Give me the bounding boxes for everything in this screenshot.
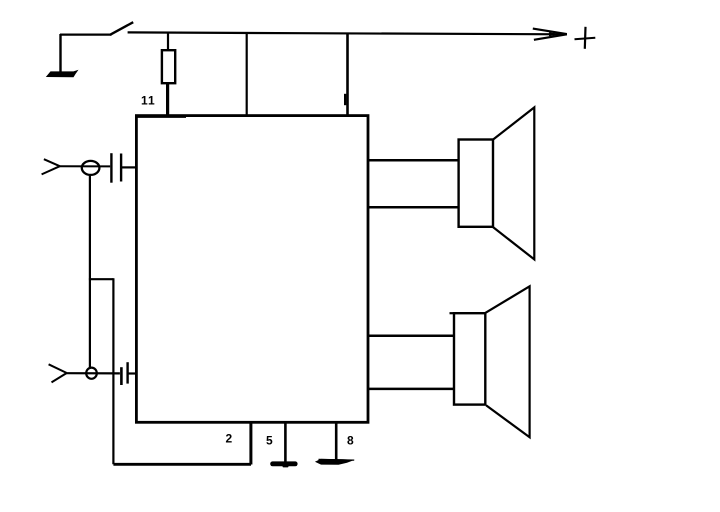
- connector J2 circle: [86, 368, 97, 379]
- wire J1 to capacitor C1: [60, 165, 111, 167]
- resistor R1 top lead: [167, 33, 169, 51]
- wire J2 to capacitor C2: [66, 372, 120, 374]
- resistor R1 bottom lead to pin 11: [166, 83, 169, 117]
- wire rail drop to IC top (left): [246, 33, 248, 115]
- svg-text:2: 2: [226, 432, 233, 446]
- svg-text:8: 8: [347, 434, 354, 448]
- switch S1 blade: [110, 22, 133, 35]
- wire pin 8 lead: [335, 422, 338, 461]
- IC U1 amplifier block: [136, 116, 368, 423]
- speaker LS2 cone: [485, 286, 529, 437]
- ground (pin 5): [270, 461, 297, 466]
- connector J2 arrow: [49, 364, 67, 373]
- resistor R1 body: [162, 50, 175, 83]
- wire C1 to IC input: [122, 166, 136, 168]
- wire speaker LS2 lower lead: [368, 388, 454, 391]
- wire between input circles: [89, 175, 91, 369]
- wire ground drop from rail: [59, 34, 61, 72]
- speaker LS2 body top-edge overhang: [450, 312, 455, 314]
- wire top rail right segment to arrow: [128, 32, 567, 34]
- ground (pin 8): [315, 459, 355, 465]
- wire speaker LS2 upper lead: [368, 334, 455, 337]
- speaker LS1 body: [459, 140, 493, 227]
- connector J1 arrow: [44, 159, 60, 166]
- svg-text:5: 5: [266, 434, 273, 448]
- wire jog to feedback line: [89, 278, 114, 280]
- wire top rail left segment: [60, 33, 112, 35]
- wire rail drop to IC top (right): [346, 33, 349, 116]
- wire speaker LS1 upper lead: [368, 159, 460, 162]
- wire feedback vertical: [112, 278, 114, 464]
- wire bottom return to pin 2: [113, 463, 251, 466]
- capacitor C1 right plate: [120, 154, 122, 182]
- capacitor C1 left plate: [110, 153, 112, 183]
- capacitor C2 left plate: [120, 367, 123, 385]
- connector J1 circle: [82, 161, 100, 175]
- svg-text:11: 11: [141, 94, 156, 108]
- power +V arrowhead: [533, 29, 567, 34]
- wire C2 to IC input: [129, 372, 136, 374]
- speaker LS2 body: [454, 313, 485, 404]
- ground (top left): [46, 70, 79, 78]
- power + symbol: [575, 38, 596, 40]
- wire speaker LS1 lower lead: [368, 206, 459, 209]
- IC U1 top edge overdraw near pin 11: [138, 116, 187, 118]
- node stray tick near right drop: [344, 94, 346, 105]
- wire pin 5 lead: [284, 422, 287, 463]
- speaker LS1 cone: [493, 107, 535, 259]
- wire pin 2 riser: [249, 422, 252, 465]
- capacitor C2 right plate: [126, 362, 128, 383]
